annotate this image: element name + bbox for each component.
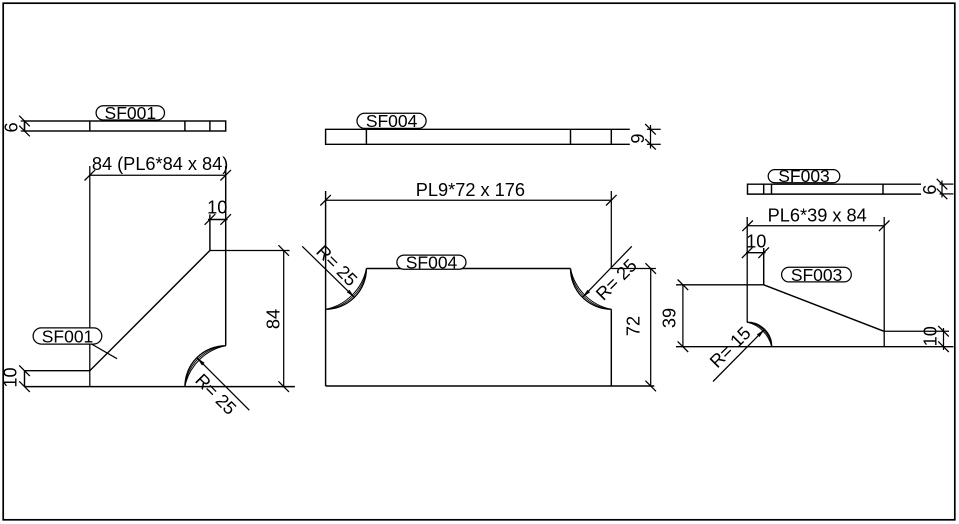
dimension 10 (SF001 bottom-left step) <box>1 365 30 392</box>
label bubble SF003 (face) <box>782 265 852 285</box>
svg-text:84: 84 <box>264 309 284 329</box>
plate SF003 face outline <box>676 285 953 347</box>
dimension 84 (PL6*84 x 84) <box>85 154 232 387</box>
radius leader R= 15 (SF003) <box>706 323 765 382</box>
dimension 72 (SF004 height) <box>611 263 656 391</box>
corner notch arc R25 (SF001) <box>185 346 226 387</box>
svg-text:SF003: SF003 <box>791 265 843 285</box>
svg-text:SF004: SF004 <box>406 253 458 273</box>
label bubble SF001 (face) with leader <box>33 326 117 358</box>
dimension 10 (SF001 top tab) <box>205 198 231 225</box>
radius leader R= 25 left (SF004) <box>302 241 361 297</box>
plate SF004 face outline <box>326 191 655 386</box>
plate SF004 side view <box>326 129 630 144</box>
svg-text:10: 10 <box>1 367 21 387</box>
dimension 6 (SF001 thickness) <box>1 116 30 137</box>
extension line / projection line left <box>89 166 91 387</box>
svg-text:39: 39 <box>660 308 680 328</box>
dimension 84 (SF001 right height) <box>210 245 290 392</box>
dimension 10 (SF003 right end) <box>884 326 949 352</box>
radius leader R= 25 (SF001) <box>191 358 249 419</box>
svg-text:PL9*72 x 176: PL9*72 x 176 <box>416 180 525 200</box>
dimension 39 (SF003 left height) <box>660 280 689 353</box>
label bubble SF003 (side view) <box>768 166 840 186</box>
bottom edge / extension line <box>25 386 295 388</box>
plate SF001 face outline <box>25 166 226 387</box>
label bubble SF004 (side view) <box>357 111 426 131</box>
corner notch arc R15 (SF003) <box>747 322 772 347</box>
plate SF001 side view <box>25 121 226 131</box>
dimension PL6*39 x 84 <box>742 205 889 346</box>
svg-text:SF001: SF001 <box>105 103 157 123</box>
svg-text:72: 72 <box>624 316 644 336</box>
svg-text:6: 6 <box>1 122 21 132</box>
svg-text:SF004: SF004 <box>366 111 418 131</box>
svg-text:SF001: SF001 <box>42 326 94 346</box>
dimension 9 (SF004 thickness) <box>628 124 661 150</box>
svg-text:10: 10 <box>920 326 940 346</box>
svg-text:SF003: SF003 <box>778 166 830 186</box>
dimension 6 (SF003 thickness) <box>920 179 954 199</box>
label bubble SF004 (face) <box>397 253 466 273</box>
corner notch arc R25 right (SF004) <box>571 269 612 310</box>
svg-text:PL6*39 x 84: PL6*39 x 84 <box>768 205 867 225</box>
dimension PL9*72 x 176 <box>320 180 616 269</box>
dimension 10 (SF003 top tab) <box>742 231 769 284</box>
label bubble SF001 (side view) <box>96 103 164 123</box>
svg-text:9: 9 <box>628 133 648 143</box>
svg-text:84 (PL6*84 x 84): 84 (PL6*84 x 84) <box>92 154 229 174</box>
corner notch arc R25 left (SF004) <box>326 269 367 310</box>
svg-text:6: 6 <box>920 185 940 195</box>
plate SF003 side view <box>748 184 922 194</box>
radius leader R= 25 right (SF004) <box>582 246 640 304</box>
